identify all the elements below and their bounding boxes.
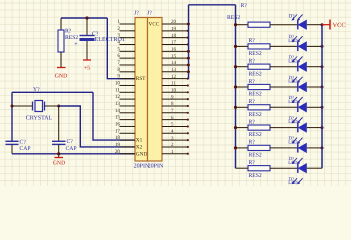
wire port tie (right pins) — [188, 5, 190, 79]
svg-text:LED: LED — [288, 99, 298, 105]
junction dot right bus row 4 — [321, 86, 324, 89]
pin 5 (left connector) — [117, 46, 135, 52]
svg-text:19: 19 — [115, 142, 121, 148]
svg-text:18: 18 — [171, 33, 177, 39]
svg-text:+: + — [74, 41, 78, 48]
svg-text:R?: R? — [249, 160, 256, 166]
wire RST node top rail — [61, 17, 107, 19]
pin 2 (left connector) — [117, 26, 135, 32]
svg-text:RES2: RES2 — [249, 173, 262, 179]
label D?/LED (cropped bottom row) — [288, 176, 302, 186]
pin 11 (right connector) — [162, 81, 189, 87]
wire bus to R (row 7) — [236, 147, 249, 149]
junction dot tie pin 14 — [187, 64, 190, 67]
LED D? (row 3) — [288, 55, 307, 72]
wire bus to R (row 8) — [236, 167, 249, 169]
resistor R? RES2 (row 8) — [248, 160, 270, 179]
svg-text:R?: R? — [249, 99, 256, 105]
svg-text:15: 15 — [171, 53, 177, 59]
junction dot bus row 5 — [234, 106, 237, 109]
svg-text:+5: +5 — [84, 65, 90, 71]
wire X2 to pin 19 — [59, 106, 135, 147]
pin 14 (left connector) — [115, 108, 135, 114]
pin 9 (left connector) — [117, 74, 146, 83]
pin 13 (right connector) — [162, 67, 189, 73]
pin 2 (right connector) — [162, 142, 189, 148]
connector J? 20PIN (left half) — [134, 10, 150, 169]
wire D to VCC bus (row 5) — [307, 106, 322, 108]
pin 4 (right connector) — [162, 128, 189, 134]
pin 6 (left connector) — [117, 53, 135, 59]
wire bus to R (row 3) — [236, 66, 249, 68]
svg-text:11: 11 — [115, 87, 120, 93]
pin 9 (right connector) — [162, 94, 189, 100]
LED D? (row 2) — [288, 34, 307, 51]
junction dot right bus row 6 — [321, 126, 324, 129]
svg-text:13: 13 — [171, 67, 177, 73]
resistor R? RES2 (row 3) — [248, 59, 270, 78]
wire D to VCC bus (row 7) — [307, 147, 322, 149]
svg-text:C?: C? — [67, 139, 74, 145]
LED D? (row 7) — [288, 136, 307, 153]
resistor R? RES2 (row 2) — [248, 38, 270, 57]
svg-text:CAP: CAP — [20, 146, 31, 152]
pin 10 (left connector) — [115, 80, 135, 86]
svg-text:RES2: RES2 — [249, 153, 262, 159]
LED D? (row 1) — [289, 14, 307, 30]
ground GND (crystal caps) — [53, 154, 66, 167]
svg-text:4: 4 — [117, 39, 120, 45]
wire bus to R (row 6) — [236, 127, 249, 129]
svg-text:13: 13 — [115, 101, 121, 107]
junction dot crystal left — [11, 105, 14, 108]
pin 7 (right connector) — [162, 108, 189, 114]
wire X1 down to pin 18 — [93, 92, 135, 140]
junction dot bus row 1 — [234, 23, 237, 26]
LED D? (row 8) — [288, 156, 307, 173]
pin 4 (left connector) — [117, 39, 135, 45]
pin 8 (right connector) — [162, 101, 189, 107]
svg-text:14: 14 — [115, 108, 121, 114]
wire D to VCC bus (row 6) — [307, 127, 322, 129]
wire R to D (row 2) — [270, 45, 298, 47]
resistor R? RES2 (row 6) — [248, 119, 270, 138]
junction dot right bus row 3 — [321, 65, 324, 68]
pin 1 (right connector) — [162, 149, 189, 155]
wire R to D (row 1) — [270, 24, 298, 26]
pin 16 (right connector) — [162, 47, 189, 53]
svg-text:LED: LED — [288, 160, 298, 166]
resistor R? RES2 (reset) — [58, 18, 78, 67]
wire R to D (row 5) — [270, 106, 298, 108]
svg-text:RES2: RES2 — [249, 112, 262, 118]
svg-text:R?: R? — [65, 29, 72, 35]
junction dot crystal right — [57, 105, 60, 108]
svg-text:RES2: RES2 — [249, 71, 262, 77]
pin 12 (right connector) — [162, 74, 189, 80]
junction dot tie pin 15 — [187, 57, 190, 60]
svg-text:ELECTRO1: ELECTRO1 — [95, 36, 125, 43]
wire bus to R (row 1) — [236, 24, 249, 26]
svg-text:12: 12 — [171, 74, 177, 80]
svg-text:11: 11 — [171, 81, 176, 87]
svg-text:GND: GND — [55, 73, 68, 79]
LED D? (row 4) — [288, 75, 307, 92]
wire bus to R (row 5) — [236, 106, 249, 108]
power VCC — [322, 20, 346, 30]
svg-text:VCC: VCC — [149, 22, 160, 28]
wire GND rail to pin 20 — [12, 153, 135, 155]
svg-text:X1: X1 — [136, 138, 143, 144]
wire D to VCC bus (row 1) — [307, 24, 322, 26]
pin 3 (left connector) — [117, 33, 135, 39]
svg-text:10: 10 — [171, 88, 177, 94]
junction dot bus row 3 — [234, 65, 237, 68]
pin 17 (left connector) — [115, 128, 135, 134]
junction dot right bus row 1 — [321, 23, 324, 26]
junction dot right bus row 7 — [321, 146, 324, 149]
crystal Y? CRYSTAL — [12, 87, 59, 122]
svg-text:R?: R? — [249, 119, 256, 125]
svg-text:15: 15 — [115, 115, 121, 121]
svg-text:LED: LED — [288, 119, 298, 125]
svg-text:J?: J? — [147, 10, 152, 16]
svg-text:9: 9 — [117, 74, 120, 80]
resistor R? RES2 (row 7) — [248, 140, 270, 159]
svg-text:6: 6 — [117, 53, 120, 59]
svg-text:16: 16 — [115, 121, 121, 127]
bus right (to VCC) — [321, 25, 323, 169]
svg-text:19: 19 — [171, 26, 177, 32]
LED D? (row 5) — [288, 95, 307, 112]
svg-text:Y?: Y? — [33, 87, 40, 93]
junction dot tie pin 16 — [187, 50, 190, 53]
svg-text:8: 8 — [117, 67, 120, 73]
pin 16 (left connector) — [115, 121, 135, 127]
capacitor C? CAP (left) — [6, 140, 31, 154]
svg-text:20PIN: 20PIN — [148, 164, 164, 170]
svg-text:J?: J? — [134, 10, 139, 16]
junction dot right bus row 5 — [321, 106, 324, 109]
pin 8 (left connector) — [117, 67, 135, 73]
pin 5 (right connector) — [162, 122, 189, 128]
pin 15 (right connector) — [162, 53, 189, 59]
junction dot right bus row 2 — [321, 45, 324, 48]
wire R to D (row 3) — [270, 66, 298, 68]
svg-text:RES2: RES2 — [249, 132, 262, 138]
wire bus feed (top) — [189, 4, 236, 6]
svg-text:12: 12 — [115, 94, 121, 100]
junction dot bus row 6 — [234, 126, 237, 129]
junction dot GND rail / cap — [57, 152, 60, 155]
pin 18 (right connector) — [162, 33, 189, 39]
pin 10 (right connector) — [162, 88, 189, 94]
svg-text:14: 14 — [171, 60, 177, 66]
svg-text:1: 1 — [117, 19, 120, 25]
resistor R? RES2 (row 5) — [248, 99, 270, 118]
junction dot RST rail / C? top — [85, 16, 88, 19]
svg-text:RES2: RES2 — [227, 15, 240, 21]
pin 3 (right connector) — [162, 135, 189, 141]
svg-text:LED: LED — [288, 140, 298, 146]
pin 11 (left connector) — [115, 87, 135, 93]
svg-text:C?: C? — [20, 140, 27, 146]
svg-text:GND: GND — [53, 160, 66, 166]
pin 15 (left connector) — [115, 115, 135, 121]
svg-text:RES2: RES2 — [249, 51, 262, 57]
junction dot tie pin 13 — [187, 70, 190, 73]
svg-text:D?: D? — [289, 14, 296, 20]
svg-text:10: 10 — [115, 80, 121, 86]
svg-text:16: 16 — [171, 47, 177, 53]
svg-text:7: 7 — [117, 60, 120, 66]
svg-text:R?: R? — [249, 79, 256, 85]
svg-text:3: 3 — [117, 33, 120, 39]
wire bus to R (row 4) — [236, 86, 249, 88]
wire R to D (row 8) — [270, 167, 298, 169]
ground GND (reset resistor) — [55, 68, 68, 80]
connector J? 20PIN (right half) — [147, 10, 164, 169]
svg-text:VCC: VCC — [333, 22, 346, 29]
pin 12 (left connector) — [115, 94, 135, 100]
pin 20 (left connector) — [115, 149, 148, 158]
wire R to D (row 6) — [270, 127, 298, 129]
wire D to VCC bus (row 2) — [307, 45, 322, 47]
junction dot bus row 4 — [234, 85, 237, 88]
svg-text:20: 20 — [115, 149, 121, 155]
wire R to D (row 4) — [270, 86, 298, 88]
bus left (resistor bus) — [235, 5, 237, 168]
pin 19 (right connector) — [162, 26, 189, 32]
svg-text:R?: R? — [241, 3, 248, 9]
svg-text:18: 18 — [115, 135, 121, 141]
wire D to VCC bus (row 4) — [307, 86, 322, 88]
svg-text:17: 17 — [171, 40, 177, 46]
svg-text:R?: R? — [249, 59, 256, 65]
pin 1 (left connector) — [117, 19, 135, 25]
pin 17 (right connector) — [162, 40, 189, 46]
svg-text:RST: RST — [136, 76, 146, 82]
svg-text:RES2: RES2 — [249, 92, 262, 98]
wire crystal-left vertical — [11, 92, 13, 141]
svg-text:CAP: CAP — [66, 146, 77, 152]
pin 13 (left connector) — [115, 101, 135, 107]
svg-text:GND: GND — [136, 151, 148, 157]
capacitor C? ELECTRO1 — [74, 18, 125, 60]
pin 18 (left connector) — [115, 135, 143, 144]
svg-text:LED: LED — [288, 58, 298, 64]
junction dot bus row 2 — [234, 45, 237, 48]
pin 20 (right connector) — [149, 19, 189, 27]
resistor R? RES2 (row 1) — [227, 3, 270, 27]
svg-text:CRYSTAL: CRYSTAL — [26, 116, 53, 122]
svg-text:5: 5 — [117, 46, 120, 52]
junction dot bus row 7 — [234, 146, 237, 149]
capacitor C? CAP (right) — [52, 106, 77, 154]
svg-text:LED: LED — [288, 38, 298, 44]
svg-text:17: 17 — [115, 128, 121, 134]
svg-text:R?: R? — [249, 140, 256, 146]
svg-text:R?: R? — [249, 38, 256, 44]
pin 7 (left connector) — [117, 60, 135, 66]
wire bus to R (row 2) — [236, 45, 249, 47]
svg-text:2: 2 — [117, 26, 120, 32]
pin 19 (left connector) — [115, 142, 143, 151]
junction dot tie pin 20 — [187, 23, 190, 26]
wire X1 rail (top of crystal loop) — [12, 91, 93, 93]
pin 6 (right connector) — [162, 115, 189, 121]
wire R to D (row 7) — [270, 147, 298, 149]
pin 14 (right connector) — [162, 60, 189, 66]
svg-text:20: 20 — [171, 19, 177, 25]
svg-text:LED: LED — [288, 79, 298, 85]
wire RST rail to pin 9 — [107, 18, 135, 79]
power +5 (cap bottom) — [83, 60, 91, 71]
svg-text:X2: X2 — [136, 144, 143, 150]
wire D to VCC bus (row 3) — [307, 66, 322, 68]
resistor R? RES2 (row 4) — [248, 79, 270, 98]
LED D? (row 6) — [288, 115, 307, 132]
wire D to VCC bus (row 8) — [307, 167, 322, 169]
